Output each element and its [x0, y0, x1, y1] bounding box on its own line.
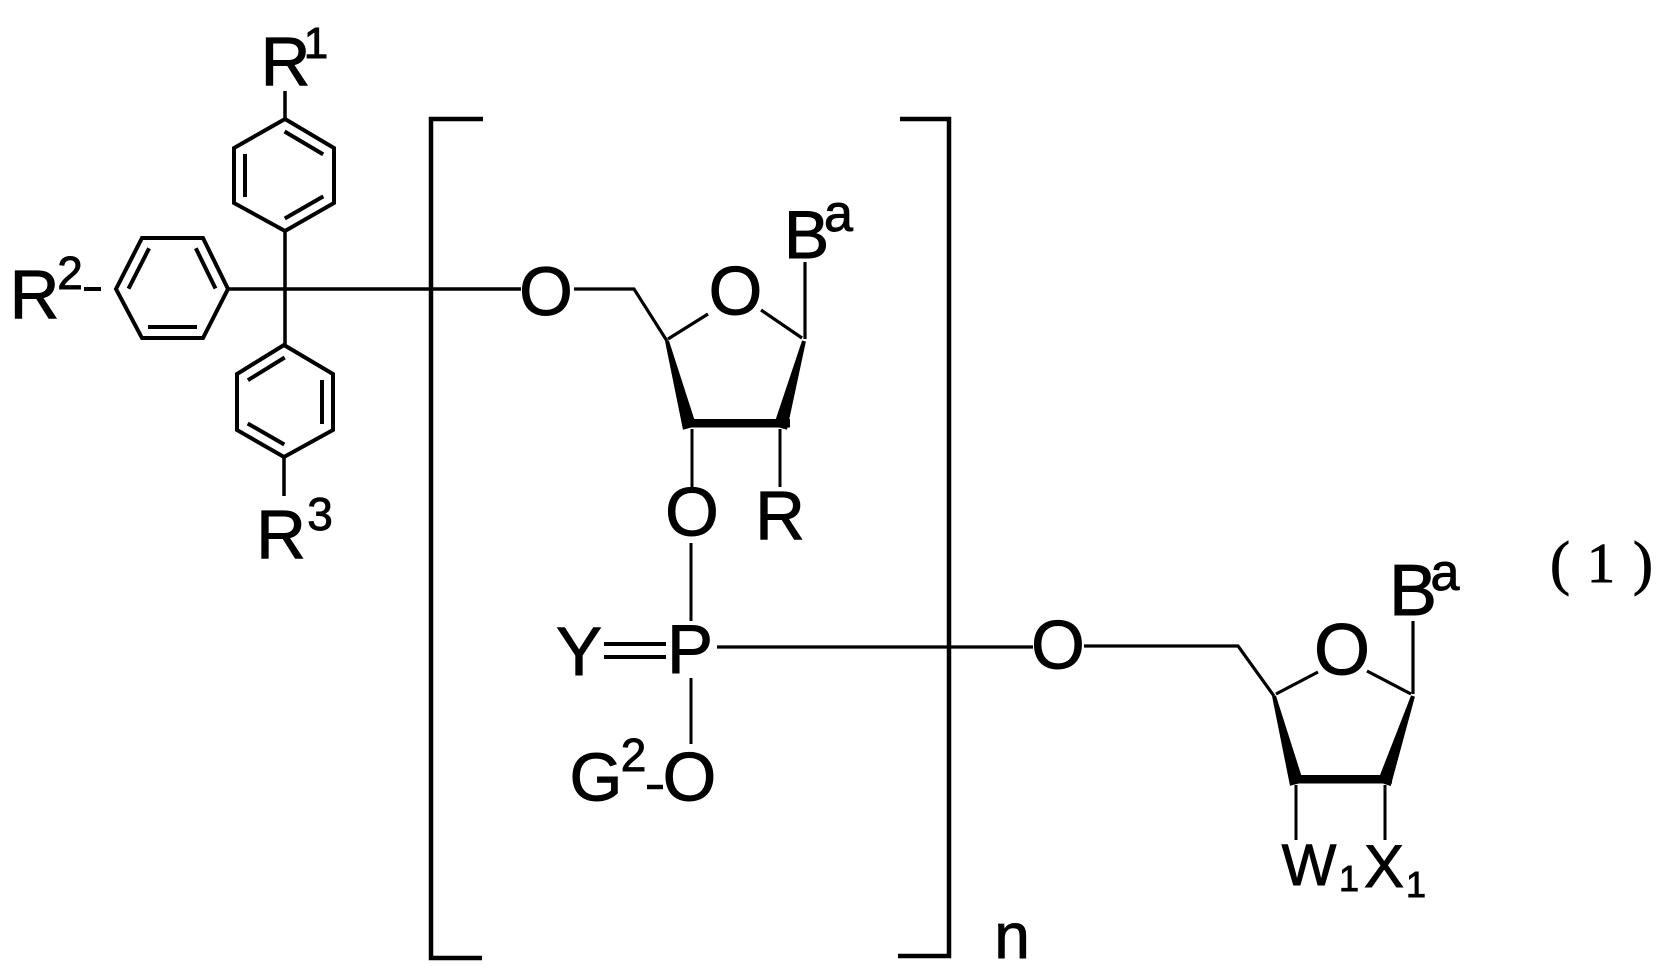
double bond Y=P line 2: [604, 655, 666, 659]
bond ring A - central C - ring C: [283, 231, 287, 345]
bond ringO1-C1: [761, 310, 802, 338]
bond ringO1-C4: [668, 314, 708, 339]
left bracket: [431, 119, 483, 958]
bond ringO2-C4: [1276, 672, 1318, 694]
bond P-O (down): [690, 678, 693, 744]
svg-text:a: a: [824, 185, 853, 243]
ring B double bond 2: [196, 248, 216, 288]
bold bond C3-C2 (terminal): [1290, 775, 1392, 784]
formula number (1): [1550, 530, 1653, 596]
svg-text:): ): [1633, 530, 1653, 596]
bond ringO2-C1: [1367, 671, 1411, 694]
svg-text:R: R: [10, 256, 60, 333]
label Ba (nucleobase 1): [784, 185, 853, 273]
bond C1-Ba: [803, 262, 806, 339]
ring A double bond 1: [285, 132, 324, 155]
ring A double bond 2: [243, 154, 247, 197]
bond P-O5 (internucleotide, horizontal): [717, 645, 1033, 648]
double bond Y=P line 1: [604, 642, 666, 646]
bond G2-O dash: [647, 785, 663, 790]
svg-text:1: 1: [304, 19, 328, 68]
svg-text:Y: Y: [556, 613, 602, 690]
svg-text:1: 1: [1406, 864, 1426, 905]
benzene ring B (left): [116, 238, 228, 338]
svg-text:1: 1: [1339, 858, 1359, 899]
bond R2 to ring B (dash): [84, 287, 101, 291]
bond ring C to R3: [282, 457, 286, 496]
svg-text:2: 2: [621, 729, 647, 781]
label G2: [570, 729, 647, 816]
svg-text:O: O: [663, 739, 717, 816]
right bracket: [898, 119, 949, 956]
bond C1-Ba (terminal): [1411, 621, 1414, 694]
bold bond C3-C2: [684, 419, 790, 428]
svg-text:a: a: [1431, 544, 1460, 602]
label R2: [10, 247, 83, 333]
svg-text:O: O: [1314, 611, 1370, 691]
svg-text:W: W: [1282, 833, 1337, 898]
benzene ring C (bottom): [237, 345, 333, 457]
label W1X1: [1282, 833, 1426, 905]
ring B double bond 3: [148, 325, 197, 329]
ring B double bond 1: [129, 248, 150, 288]
svg-text:P: P: [667, 611, 713, 688]
ring C double bond 3: [248, 424, 285, 445]
svg-text:2: 2: [57, 247, 83, 299]
wedge bond C4-C3: [665, 341, 696, 430]
svg-text:O: O: [1031, 607, 1085, 684]
svg-text:O: O: [519, 253, 573, 330]
bond O5-C5-C4 (terminal): [1084, 646, 1274, 696]
svg-text:G: G: [570, 740, 623, 816]
svg-text:3: 3: [307, 488, 333, 540]
wedge bond C1-C2 (terminal): [1377, 695, 1415, 786]
svg-text:R: R: [256, 496, 306, 573]
svg-text:O: O: [709, 253, 763, 330]
ring C double bond 1: [248, 358, 285, 381]
svg-text:B: B: [784, 197, 829, 273]
bond C3-W1: [1295, 785, 1298, 840]
ring C double bond 2: [320, 380, 324, 424]
wedge bond C4-C3 (terminal): [1272, 696, 1303, 786]
ring A double bond 3: [285, 196, 324, 218]
wedge bond C1-C2: [774, 341, 806, 430]
label R1: [261, 19, 329, 100]
bond R1 to ring A: [283, 91, 287, 121]
label R3: [256, 488, 333, 573]
svg-text:X: X: [1364, 833, 1404, 900]
bond C3-O3: [691, 429, 694, 489]
svg-text:n: n: [994, 900, 1030, 972]
label Ba (nucleobase 2): [1389, 544, 1460, 631]
bond O5-C5-C4: [574, 289, 667, 341]
svg-text:O: O: [665, 474, 719, 551]
svg-text:(: (: [1550, 530, 1570, 596]
svg-text:1: 1: [1587, 533, 1615, 595]
bond trityl C to O5 (horizontal): [228, 287, 521, 291]
benzene ring A (top): [234, 119, 334, 231]
bond C2-R: [779, 429, 782, 487]
bond C2-X1: [1384, 785, 1387, 840]
bond O3-P: [690, 543, 693, 621]
svg-text:R: R: [755, 477, 805, 554]
